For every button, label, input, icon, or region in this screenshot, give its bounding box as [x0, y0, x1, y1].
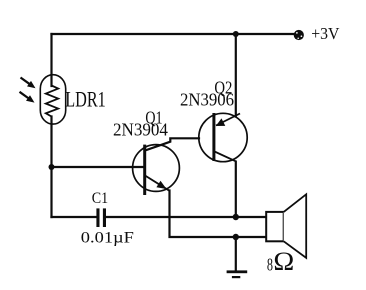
svg-text:8: 8 — [267, 255, 273, 275]
svg-text:C1: C1 — [92, 190, 108, 207]
svg-text:0.01µF: 0.01µF — [81, 229, 134, 246]
svg-text:LDR1: LDR1 — [65, 88, 105, 112]
svg-text:2N3904: 2N3904 — [113, 119, 168, 140]
svg-text:+3V: +3V — [311, 26, 339, 43]
svg-text:Ω: Ω — [273, 247, 294, 276]
svg-text:2N3906: 2N3906 — [180, 89, 234, 110]
